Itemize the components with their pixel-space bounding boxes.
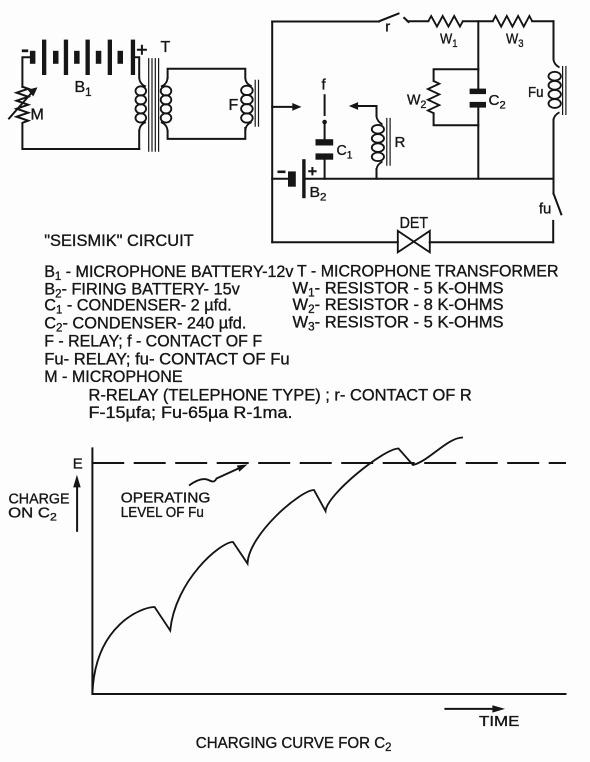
- svg-text:M - MICROPHONE: M - MICROPHONE: [44, 367, 182, 386]
- svg-text:E: E: [73, 456, 83, 473]
- svg-text:r: r: [385, 19, 390, 36]
- svg-text:R-RELAY (TELEPHONE TYPE) ; r-: R-RELAY (TELEPHONE TYPE) ; r- CONTACT OF…: [89, 386, 472, 405]
- svg-text:ON C2: ON C2: [8, 505, 57, 524]
- svg-text:TIME: TIME: [479, 713, 519, 730]
- svg-text:F-15µfa; Fu-65µa R-1ma.: F-15µfa; Fu-65µa R-1ma.: [89, 403, 293, 422]
- svg-text:T: T: [161, 39, 171, 56]
- svg-text:Fu: Fu: [528, 84, 544, 101]
- svg-text:fu: fu: [539, 201, 552, 218]
- svg-text:M: M: [31, 107, 44, 124]
- svg-text:F - RELAY; f - CONTACT OF F: F - RELAY; f - CONTACT OF F: [44, 331, 262, 350]
- svg-text:"SEISMIK" CIRCUIT: "SEISMIK" CIRCUIT: [44, 231, 194, 250]
- svg-text:LEVEL OF Fu: LEVEL OF Fu: [121, 504, 204, 521]
- svg-text:CHARGING CURVE FOR C2: CHARGING CURVE FOR C2: [196, 735, 392, 754]
- svg-text:DET: DET: [400, 215, 429, 232]
- svg-text:F: F: [229, 97, 239, 114]
- svg-text:R: R: [395, 134, 406, 151]
- svg-text:W3- RESISTOR - 5 K-OHMS: W3- RESISTOR - 5 K-OHMS: [293, 312, 504, 333]
- svg-text:Fu- RELAY; fu- CONTACT OF Fu: Fu- RELAY; fu- CONTACT OF Fu: [44, 350, 289, 369]
